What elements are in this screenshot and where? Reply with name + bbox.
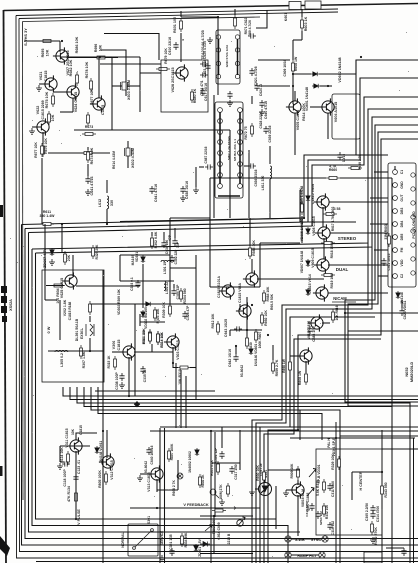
resistor R930 [263,469,266,483]
wire [382,448,418,450]
wire bus M4 [84,387,392,563]
wire [258,59,290,61]
wire [139,314,141,326]
wire [102,391,104,563]
svg-text:MA165: MA165 [131,255,135,266]
svg-text:DL391 50A1B: DL391 50A1B [75,318,79,341]
svg-text:VD302 R369 10K: VD302 R369 10K [117,288,121,314]
diode VD608 [306,288,310,296]
wire bus W1 [22,60,418,225]
wire bus M6 [98,387,322,440]
transistor V624 [64,83,79,100]
wire rail [60,56,140,58]
resistor R807 [255,329,258,343]
wire [248,150,250,218]
resistor R898 [289,359,292,373]
wire bus W7 [268,139,418,563]
wire [239,430,241,470]
svg-text:R617 4.7K C602: R617 4.7K C602 [331,207,335,232]
wire bus L3 [22,225,418,546]
svg-text:R692 10K: R692 10K [264,310,268,326]
wire [297,480,299,485]
wire [210,286,247,288]
resistor R696 [94,56,108,59]
wire [234,9,236,15]
svg-text:C641 47/16: C641 47/16 [90,176,94,195]
pin contact [238,162,243,167]
svg-text:R659 2.7K: R659 2.7K [275,359,279,376]
wire [190,367,196,369]
pin VDD [393,261,398,266]
pin contact [216,61,220,65]
svg-text:330: 330 [249,342,253,348]
svg-text:R611: R611 [43,210,51,214]
wire [257,85,290,87]
wire [229,130,231,218]
svg-text:GND: GND [400,181,404,189]
resistor R339 [323,479,326,493]
crystal X603 [121,82,128,90]
terminal SYNC [322,536,328,542]
diode VD606 [306,194,310,202]
box V604 [332,94,360,139]
wire [370,223,388,225]
svg-text:R334 39K: R334 39K [184,532,188,547]
capacitor C623 [205,63,210,71]
resistor R311 [149,330,152,344]
resistor R619 [321,274,335,277]
inner box line top [23,17,261,22]
wire [139,57,141,112]
svg-text:C642 10/16: C642 10/16 [228,349,232,367]
wire [300,221,356,223]
svg-text:R660: R660 [329,168,337,172]
svg-text:C328 47P: C328 47P [186,305,190,320]
capacitor C641 [85,176,90,184]
wire [180,11,182,17]
wire [44,224,46,300]
wire bus W8 [264,339,381,563]
svg-text:VD301: VD301 [135,252,139,262]
capacitor C630 [161,240,166,248]
pin contact [238,184,243,189]
svg-text:S301: S301 [147,516,151,524]
wire [217,17,219,95]
svg-text:C639 22/16: C639 22/16 [268,125,272,142]
wire junction [103,531,128,533]
edge artifact [0,205,3,217]
wire [90,395,140,397]
wire [301,9,303,17]
svg-text:C321 1.35: C321 1.35 [169,534,173,549]
wire [195,255,197,400]
resistor R608 [292,60,295,74]
resistor R325 [64,251,67,265]
wire [319,73,356,75]
svg-text:100K R807: 100K R807 [258,331,262,348]
wire [209,178,211,287]
svg-text:XS02A: XS02A [9,299,13,311]
capacitor C302 [169,255,174,263]
svg-text:C1815: C1815 [117,340,121,351]
wire bus L4 [25,229,418,539]
wire bus M9 [340,435,418,437]
resistor R679 [156,68,170,71]
wire [174,228,176,238]
wire [102,270,104,400]
capacitor C640 [259,100,264,108]
border outer left [4,10,7,563]
resistor R807b [168,448,171,462]
wire [294,91,296,101]
junction [335,437,337,439]
wire [46,285,64,287]
ground [259,109,265,115]
transistor V627 [53,47,68,64]
wire bus W5 [345,125,418,402]
capacitor C314b [370,511,375,519]
svg-text:VD602 1N4148: VD602 1N4148 [338,57,342,82]
pin DB5 [393,235,398,240]
wire [68,57,118,59]
capacitor C634 [200,72,208,77]
wire [269,179,271,218]
wire bus W4a [32,109,418,249]
contact bar m1 left [218,39,220,75]
svg-text:X603 3.58M: X603 3.58M [127,80,131,100]
capacitor C388 [307,326,312,334]
diode VD303b [144,302,152,306]
resistor R334 [181,533,184,547]
ground [180,195,186,201]
wire [87,147,89,150]
svg-text:C1815 R188: C1815 R188 [68,302,72,321]
svg-text:C643 10/25: C643 10/25 [224,319,228,337]
wire [60,445,90,447]
capacitor C624 [254,83,259,91]
wire [127,156,129,168]
wire [59,300,61,340]
wire bus M1 [63,387,418,396]
wire [106,209,108,224]
svg-text:R696: R696 [94,44,98,52]
svg-text:R601 100: R601 100 [173,17,177,33]
transistor V625 [62,272,77,289]
resistor R805 [105,471,108,485]
wire [297,495,299,536]
relay K601 [289,1,321,10]
svg-text:R332 270K: R332 270K [374,527,378,545]
wire [221,427,223,448]
wire [292,40,294,60]
bottom edge line [36,561,418,563]
ground [57,463,63,469]
wire [89,338,91,351]
terminal Q [210,489,216,495]
wire [59,446,61,462]
box switch matrix 2 [215,102,243,198]
terminal cross 1b [323,537,327,541]
svg-text:2216 B: 2216 B [227,533,231,544]
svg-text:R585 10K: R585 10K [252,240,256,256]
edge artifact 2 [0,466,3,476]
svg-text:X602 4.43M: X602 4.43M [131,148,135,168]
svg-text:R930 10K: R930 10K [256,465,260,481]
junction [106,223,108,225]
wire [356,154,370,156]
capacitor C365 [370,505,375,513]
resistor R314b [157,331,160,345]
svg-text:V625 C1815: V625 C1815 [60,278,64,299]
junction [292,85,294,87]
junction [360,56,362,58]
svg-text:C621 4.7/26: C621 4.7/26 [254,66,258,85]
transistor V616 [308,314,323,331]
junction [61,40,63,42]
wire [374,171,388,173]
wire [272,345,274,360]
wire bus L6 [32,249,288,563]
capacitor C321 [169,548,174,556]
terminal tail [215,494,219,498]
transistor V685 [243,270,258,287]
pin contact [238,130,243,135]
svg-text:R674 10K: R674 10K [90,147,94,164]
resistor R603b [388,233,391,247]
svg-text:VD302 MA165: VD302 MA165 [144,307,148,329]
wire bus H1 [120,218,304,222]
wire [74,129,230,131]
pin contact [235,48,239,52]
svg-text:R608 1W: R608 1W [294,56,298,71]
inductor L305 [55,350,68,352]
wire [351,472,353,500]
wire [200,426,222,428]
wire [60,111,73,113]
wire [200,553,253,555]
svg-text:R304 560: R304 560 [183,288,187,303]
transistor V306 [120,343,135,360]
capacitor C376 [401,548,406,556]
svg-text:C640 100/16: C640 100/16 [150,445,154,464]
transistor V605 [286,98,301,115]
ground [119,382,125,388]
svg-text:C628 22/16: C628 22/16 [259,111,263,128]
resistor R403 [227,483,230,497]
diode VD602 [311,72,319,76]
diode VD93 [200,542,210,547]
inductor L612 [107,196,109,209]
wire [72,255,74,276]
svg-text:R307 1.8K: R307 1.8K [82,351,86,368]
svg-text:L301 15: L301 15 [163,262,167,274]
svg-text:C824 VD611: C824 VD611 [403,300,407,319]
svg-text:C1815: C1815 [101,105,105,115]
capacitor C317 [229,466,234,474]
svg-text:10K R310: 10K R310 [178,369,182,385]
terminal E-W [285,536,291,542]
wire [386,547,404,549]
wire box corner B [100,50,126,96]
diode VD601 [312,84,320,88]
transistor Q807 [289,481,304,498]
svg-text:R676 10K: R676 10K [44,138,48,154]
capacitor C401 [219,451,224,459]
wire [112,351,124,353]
svg-text:47K R134: 47K R134 [67,486,71,502]
svg-text:ZD301 7.5V: ZD301 7.5V [198,538,202,556]
zener ZD607 [50,248,54,256]
wire [355,60,357,74]
svg-text:0 W: 0 W [46,326,51,333]
svg-text:C2: C2 [400,274,404,278]
wire [320,85,332,87]
wire [177,460,179,490]
svg-text:DB3: DB3 [400,208,404,215]
resistor R891 [246,335,249,349]
pin contact [218,130,223,135]
wire [127,85,140,87]
switch arm [205,525,212,532]
wire [269,146,271,164]
transistor V614 [313,284,328,301]
wire bus L7 [36,253,277,519]
svg-text:C624 -D: C624 -D [259,83,263,96]
wire [95,390,215,392]
capacitor C335 [140,366,145,374]
terminal cross 1 [286,537,290,541]
diamond mark [134,401,140,407]
resistor R692 [261,312,264,326]
wire bus M2 [70,387,418,400]
svg-text:C401 12P: C401 12P [214,447,218,462]
wire [61,224,63,252]
wire [290,355,301,357]
capacitor C643 [234,326,242,331]
pin contact [218,173,223,178]
svg-text:R695: R695 [41,49,45,58]
wire [140,129,214,131]
svg-text:M5 B/A 30A 1.1: M5 B/A 30A 1.1 [233,139,237,161]
wire [60,461,64,463]
svg-text:V604 A1015: V604 A1015 [334,102,338,122]
wire [180,370,182,428]
junction [99,56,101,58]
wire [199,166,204,168]
transistor V311 [67,437,82,454]
wire [156,479,158,492]
capacitor C622b [248,33,256,38]
wire [322,207,324,227]
wire [120,254,170,256]
wire bus W2 [25,78,418,229]
junction [344,312,346,314]
resistor R602 [151,235,154,249]
ground [227,100,233,106]
resistor R808 [305,371,308,385]
diode VD801 [249,347,253,355]
resistor R304 [180,288,183,302]
svg-text:C123 .01: C123 .01 [77,460,81,474]
diode VD303 [195,448,199,456]
wire [151,232,153,236]
contact bar right [239,112,241,184]
diode VD605 [306,227,310,235]
svg-text:R66-5 50K: R66-5 50K [270,293,274,310]
wire [394,166,396,170]
wire [212,462,240,464]
wire bus M8 [150,430,418,432]
pin contact [238,119,243,124]
resistor R671b [234,15,237,29]
pin contact [235,74,239,78]
box delay line section [42,270,104,382]
wire [329,201,388,203]
pin contact [235,35,239,39]
svg-text:C313 6800: C313 6800 [305,501,309,516]
junction [327,85,329,87]
wire [286,489,293,491]
resistor R909 [297,466,300,480]
resistor R660 [326,177,340,180]
wire bus M5 [91,387,340,563]
wire [127,141,129,148]
svg-text:R807 100K: R807 100K [170,443,174,460]
wire [244,165,249,167]
svg-text:R802 2K: R802 2K [201,474,205,488]
resistor R677 [41,143,44,157]
wire [42,132,44,144]
svg-text:DB4: DB4 [400,221,404,228]
svg-text:C610 22/16: C610 22/16 [168,37,172,55]
transistor V621 [42,75,57,92]
ground [207,37,213,43]
terminal cross 2 [286,553,290,557]
svg-text:R401 4.7K: R401 4.7K [210,460,214,476]
svg-text:10K: 10K [46,49,50,56]
wire [164,428,166,563]
ground [85,189,91,195]
transistor V609 [314,256,329,273]
capacitor C642 [233,354,238,362]
svg-text:FM: FM [400,247,404,252]
svg-text:C634 47/1: C634 47/1 [200,80,204,95]
svg-text:V FEEDBACK: V FEEDBACK [183,502,208,507]
diode VD301 [141,255,145,263]
diode VD302 [141,310,145,318]
wire [299,410,301,440]
wire [111,57,113,86]
resistor R601 [180,18,183,32]
wire [294,113,296,155]
capacitor C629 [200,61,208,66]
junction [89,350,91,352]
wire [301,216,303,243]
wire [239,304,241,310]
svg-text:DUAL: DUAL [336,267,349,272]
wire bus W10 [256,247,372,563]
wire [268,469,300,471]
terminal RAMP [285,552,291,558]
wire [127,532,129,543]
wire [305,361,307,373]
wire [181,16,218,18]
wire [293,39,302,41]
wire bus W11 [252,243,368,563]
capacitor C688 [337,152,342,160]
wire [48,152,110,154]
wire [256,10,267,28]
